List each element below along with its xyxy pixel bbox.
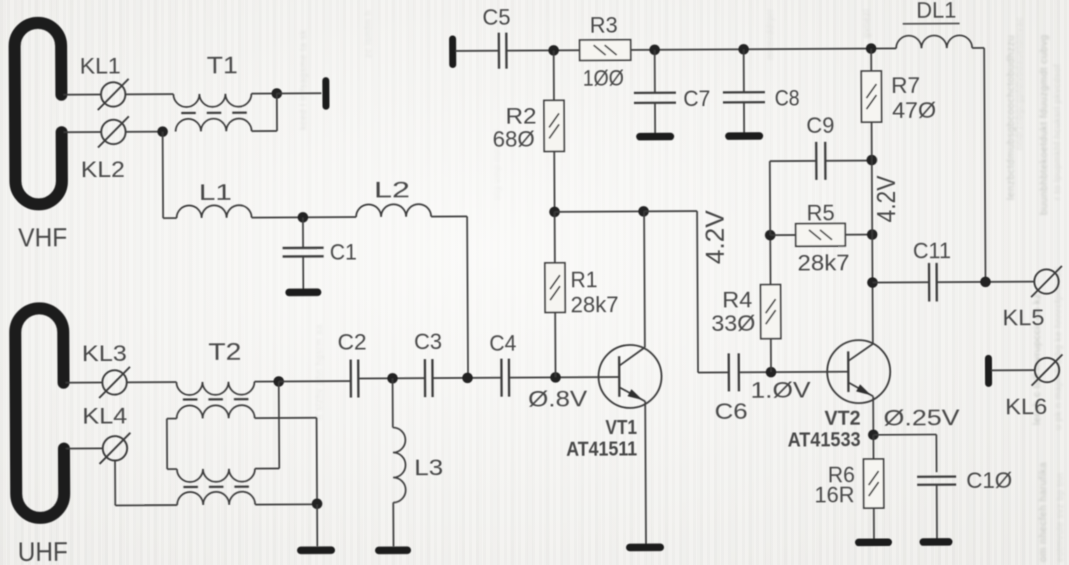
wire supply to R7 [870, 49, 872, 71]
wire T2 junction to ground [316, 504, 318, 546]
capacitor C1 [283, 247, 324, 250]
svg-text:C11: C11 [913, 238, 951, 263]
svg-text:C2: C2 [338, 329, 367, 354]
svg-text:VHF: VHF [18, 222, 67, 252]
svg-text:C3: C3 [414, 329, 442, 354]
svg-text:C9: C9 [806, 113, 834, 138]
wire L1 to L2 [252, 216, 356, 219]
node R4-R5-C9 junction [765, 230, 776, 241]
wire T2 B left [167, 418, 177, 420]
wire R1 to base node [554, 312, 556, 377]
svg-text:R2: R2 [505, 104, 536, 129]
node R5 right junction [867, 229, 878, 240]
transformer T2 winding B [177, 405, 255, 418]
svg-text:VT2: VT2 [825, 408, 861, 430]
svg-text:KL2: KL2 [81, 157, 125, 182]
svg-text:C4: C4 [489, 330, 516, 355]
node L3 junction [387, 373, 398, 384]
svg-text:L3: L3 [414, 455, 443, 480]
svg-text:om nhecfeh harufika: om nhecfeh harufika [1038, 462, 1049, 562]
svg-text:C1Ø: C1Ø [966, 468, 1012, 493]
wire T2 junction down [278, 381, 281, 468]
resistor R5 [796, 223, 846, 246]
transistor VT2 outline [827, 340, 890, 403]
svg-text:r to lpupmkhf hcuksrl pkvcdso: r to lpupmkhf hcuksrl pkvcdsof [1052, 64, 1062, 200]
svg-text:1ØØ: 1ØØ [583, 66, 624, 91]
svg-text:68Ø: 68Ø [493, 127, 535, 152]
transformer T1 secondary winding [176, 118, 252, 131]
wire T2 B-C left link [166, 419, 168, 469]
node T2 output junction [273, 376, 284, 387]
transformer T2 core lower [183, 486, 197, 488]
svg-text:R4: R4 [722, 287, 752, 312]
terminal KL4 [103, 436, 128, 461]
transistor VT2 collector lead [848, 344, 873, 361]
node R7-DL1 junction [866, 43, 877, 54]
ground below T2 [301, 546, 331, 554]
capacitor C8 [723, 91, 765, 94]
svg-text:AT41511: AT41511 [566, 438, 637, 460]
wire base node up to R4 [770, 339, 772, 372]
inductor L3 [393, 427, 406, 502]
svg-text:KL1: KL1 [80, 53, 121, 78]
wire DL1 right [972, 47, 984, 49]
capacitor C2 [350, 360, 353, 398]
svg-text:T2: T2 [208, 338, 241, 365]
terminal KL6 [1035, 358, 1060, 383]
node C8 junction [738, 44, 749, 55]
wire T2 to C2 [279, 380, 351, 382]
wire bias node to collector node [555, 210, 644, 213]
ground left of C5 [449, 39, 456, 64]
wire collector node right [644, 210, 697, 212]
wire L3 stem top [392, 378, 394, 427]
wire VT1 emitter to ground [644, 401, 647, 543]
ground below C8 [729, 132, 759, 140]
node R7 bottom junction [866, 155, 877, 166]
capacitor C3 [424, 359, 427, 397]
wire emitter node right [873, 433, 936, 435]
transistor VT1 outline [598, 345, 661, 408]
svg-text:C7: C7 [683, 86, 710, 111]
wire VT1 collector up [643, 211, 646, 347]
wire T2 C left [167, 468, 177, 470]
terminal KL5 [1034, 269, 1059, 294]
svg-text:C8: C8 [775, 85, 800, 110]
wire node down to L1 [162, 132, 164, 218]
wire C10 to ground [936, 485, 938, 538]
wire C1 to ground [302, 256, 304, 288]
resistor R2 [544, 100, 564, 151]
wire T1 junction to ground [277, 92, 322, 94]
ground below C10 [923, 538, 948, 546]
wire R2 to node [553, 151, 555, 211]
wire C9 node up [769, 161, 771, 235]
transformer T2 winding D [177, 492, 255, 505]
wire T2 C right [255, 467, 279, 469]
wire ground to C5 [455, 50, 499, 52]
wire down to C1 [302, 217, 304, 247]
wire KL3 to T2 [127, 381, 177, 383]
wire C4 to VT1 base [509, 376, 619, 379]
wire to C9 [770, 160, 816, 162]
wire to C6 [698, 371, 728, 373]
capacitor C10 [917, 475, 956, 478]
transistor VT2 emitter lead [848, 382, 873, 396]
svg-text:R3: R3 [590, 13, 618, 38]
node L2 junction [462, 373, 473, 384]
svg-text:AT41533: AT41533 [788, 429, 861, 451]
inductor DL1 [896, 35, 972, 48]
wire T1 secondary up to junction [276, 93, 278, 130]
wire emitter node to R6 [872, 435, 874, 459]
wire T1 primary right to junction [251, 92, 276, 94]
svg-text:Ø.25V: Ø.25V [884, 405, 961, 430]
ground at KL6 [985, 358, 992, 383]
inductor L1 [177, 205, 252, 218]
svg-text:KL3: KL3 [82, 341, 127, 366]
svg-text:T1: T1 [207, 52, 238, 79]
wire T2 D right [255, 503, 317, 505]
wire KL2 to node [126, 131, 163, 133]
wire collector node to C11 [873, 281, 930, 283]
svg-text:KL6: KL6 [1005, 394, 1047, 419]
node R2-R1 junction [549, 207, 560, 218]
node C1 junction [298, 212, 309, 223]
transformer T1 core [181, 112, 195, 114]
antenna UHF folded-dipole symbol [15, 308, 64, 518]
capacitor C6 [728, 353, 731, 391]
svg-text:VT1: VT1 [605, 417, 637, 439]
wire antenna to KL2 [64, 131, 102, 133]
svg-text:UHF: UHF [18, 536, 68, 565]
transistor VT1 base bar [618, 356, 621, 397]
label DL1 underline [903, 22, 960, 24]
svg-text:47Ø: 47Ø [892, 97, 936, 122]
wire R4 top to node [769, 235, 771, 284]
wire T2 B right down [316, 418, 318, 504]
wire T2 A right to junction [254, 380, 278, 382]
wire L2 down to C3-C4 node [466, 216, 469, 377]
capacitor C9 [815, 142, 818, 180]
svg-text:R1: R1 [570, 267, 597, 292]
wire KL4 down [114, 461, 116, 506]
svg-text:L2: L2 [374, 177, 410, 202]
wire down to C6 row [696, 211, 699, 372]
inductor L2 [356, 204, 431, 217]
svg-text:eotmvule svz bp tnn: eotmvule svz bp tnn [1055, 472, 1065, 562]
wire L3 stem bottom [392, 503, 394, 547]
ground below R6 [859, 539, 888, 547]
svg-text:C5: C5 [482, 5, 510, 30]
wire T1 secondary right [252, 130, 277, 132]
ground at T1 [322, 81, 329, 106]
svg-text:mvmrddrprr: mvmrddrprr [765, 9, 775, 61]
svg-text:C6: C6 [715, 399, 748, 424]
resistor R6 [864, 459, 884, 508]
wire L2 right [431, 215, 467, 217]
svg-text:KL4: KL4 [82, 403, 127, 428]
resistor R4 [761, 285, 781, 339]
svg-text:DL1: DL1 [916, 0, 956, 23]
wire C7 to ground [654, 103, 656, 132]
terminal KL3 [102, 370, 127, 395]
wire R7 down collector column [872, 122, 873, 343]
transistor VT1 emitter lead [619, 387, 645, 401]
wire node to R1 [554, 212, 556, 263]
transistor VT1 emitter arrow [628, 389, 643, 400]
svg-text:R5: R5 [807, 200, 835, 225]
ground below C1 [289, 289, 317, 297]
wire supply to R2 [553, 50, 555, 100]
wire C8 stem [743, 49, 745, 91]
wire C3 to C4 [433, 377, 502, 379]
ground below VT1 [630, 544, 660, 552]
svg-text:kced l ir fsagsme ta sk: kced l ir fsagsme ta sk [298, 29, 308, 130]
terminal KL1 [101, 82, 126, 107]
node supply-R2 junction [548, 45, 559, 56]
resistor R7 [861, 71, 881, 122]
resistor R3 [580, 40, 631, 61]
svg-text:L1: L1 [199, 180, 232, 205]
svg-text:33Ø: 33Ø [711, 311, 755, 336]
svg-text:4.2V: 4.2V [700, 209, 730, 264]
capacitor C4 [500, 359, 503, 397]
node C7 junction [649, 44, 660, 55]
wire R6 to ground [873, 508, 875, 538]
wire down to C10 [935, 434, 937, 472]
transistor VT2 base bar [847, 351, 850, 392]
terminal KL2 [101, 120, 126, 145]
transistor VT2 emitter arrow [856, 384, 871, 395]
wire antenna to KL3 [66, 381, 103, 383]
node VT1 collector junction [638, 206, 649, 217]
wire DL1 down to KL5 node [984, 48, 985, 282]
wire C2 to C3 [358, 377, 425, 379]
svg-text:KL5: KL5 [1002, 305, 1044, 330]
wire C9 to R7 node [825, 160, 871, 162]
ground below L3 [379, 546, 407, 554]
transformer T2 winding A [176, 382, 254, 395]
wire KL4 to T2 winding D [115, 504, 177, 506]
wire KL1 to T1 primary [125, 93, 173, 95]
capacitor C11 [928, 263, 931, 301]
wire ground to KL6 [991, 369, 1035, 371]
node DL1-KL5 junction [980, 277, 991, 288]
transformer T2 core upper [183, 398, 197, 400]
transformer T1 primary winding [173, 94, 251, 107]
wire VT2 emitter down [872, 396, 874, 434]
svg-text:28k7: 28k7 [571, 292, 619, 317]
transistor VT1 collector lead [619, 347, 645, 365]
svg-text:4.2V: 4.2V [871, 175, 901, 223]
wire C11 to KL5 [937, 281, 1035, 284]
svg-text:Ø.8V: Ø.8V [528, 386, 588, 411]
svg-text:nndrznbgcgpfdlvbdauetdmvac: nndrznbgcgpfdlvbdauetdmvac [1014, 17, 1024, 150]
wire C7 stem [654, 50, 656, 92]
transformer T2 winding C [177, 469, 255, 482]
antenna VHF folded-dipole symbol [14, 23, 62, 205]
wire antenna to KL1 [63, 93, 101, 95]
wire antenna to KL4 [66, 447, 103, 449]
svg-text:tt slzhv ghn hgsrm aa: tt slzhv ghn hgsrm aa [314, 324, 324, 420]
svg-text:zc ismfm h: zc ismfm h [363, 10, 373, 58]
node emitter junction [868, 430, 879, 441]
svg-text:16R: 16R [814, 482, 854, 507]
svg-text:28k7: 28k7 [798, 250, 850, 275]
wire R3 to DL1 [631, 48, 896, 50]
node T1 right junction [271, 88, 282, 99]
svg-text:R7: R7 [891, 73, 920, 98]
node R4 base junction [766, 367, 777, 378]
wire T2 B right [255, 417, 317, 419]
node C11 junction [867, 277, 878, 288]
ground below C7 [640, 133, 670, 141]
node R1 base junction [550, 372, 561, 383]
svg-text:buunbhbtekoetdukt fduuzgmdt cu: buunbhbtekoetdukt fduuzgmdt cubvg [1039, 34, 1050, 215]
svg-text:C1: C1 [330, 240, 357, 265]
wire to L1 [163, 217, 176, 219]
wire node to R5 [770, 234, 795, 236]
svg-text:gvnezi: gvnezi [861, 9, 871, 38]
wire C8 to ground [743, 103, 745, 132]
resistor R1 [545, 263, 565, 313]
wire R5 to collector column [845, 234, 872, 236]
wire C5 to R3 [506, 49, 579, 51]
capacitor C7 [634, 92, 676, 95]
capacitor C5 [498, 33, 501, 69]
node T1 secondary left junction [157, 126, 168, 137]
wire C6 to VT2 base [739, 371, 848, 374]
node T2 ground junction [312, 498, 323, 509]
svg-text:1.ØV: 1.ØV [750, 377, 811, 402]
